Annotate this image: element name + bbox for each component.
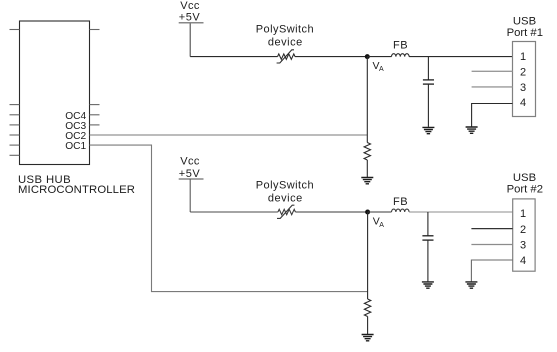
resistor R1 (VA1 to ground) xyxy=(364,143,370,160)
power Vcc +5V (bottom) xyxy=(179,156,204,181)
wire J1 pin 4 to ground xyxy=(472,104,513,127)
svg-text:4: 4 xyxy=(520,255,526,267)
svg-text:FB: FB xyxy=(393,196,408,208)
capacitor C2 top lead xyxy=(427,212,429,235)
wire node VA2 down to resistor R2 xyxy=(367,212,369,299)
svg-text:A: A xyxy=(379,66,384,73)
ground (below C2) xyxy=(422,282,434,288)
svg-text:USB: USB xyxy=(513,172,536,184)
svg-text:3: 3 xyxy=(520,82,526,94)
capacitor C1 bottom lead xyxy=(427,84,429,127)
svg-text:USB: USB xyxy=(513,16,536,28)
svg-text:Vcc: Vcc xyxy=(180,0,200,12)
wire node VA2 to ferrite bead xyxy=(368,211,392,213)
capacitor C2 xyxy=(422,236,433,240)
svg-text:1: 1 xyxy=(520,51,526,63)
wire OC1 sense net: right, down, right to node VA2 xyxy=(90,145,368,292)
svg-text:2: 2 xyxy=(520,224,526,236)
wire polyswitch to node VA2 xyxy=(295,211,367,213)
ground (J1 pin 4) xyxy=(466,127,478,133)
svg-text:3: 3 xyxy=(520,240,526,252)
svg-text:A: A xyxy=(379,222,384,229)
wire J2 pin 4 to ground xyxy=(471,260,512,281)
svg-text:MICROCONTROLLER: MICROCONTROLLER xyxy=(18,184,135,196)
wire Vcc1 drop xyxy=(189,23,191,56)
ground (J2 pin 4) xyxy=(465,282,477,288)
svg-text:2: 2 xyxy=(520,66,526,78)
wire OC2 sense net to node VA1 xyxy=(90,134,368,136)
wire J2 pin 3 stub (D+) xyxy=(471,244,512,246)
capacitor C1 xyxy=(423,80,434,84)
wire J1 pin 2 stub (D-) xyxy=(472,70,513,72)
capacitor C1 top lead xyxy=(427,57,429,80)
USB hub microcontroller U1 box xyxy=(20,21,90,165)
svg-text:PolySwitch: PolySwitch xyxy=(256,179,314,191)
U1 left pin stubs xyxy=(10,30,20,156)
polyswitch F1 (resettable fuse) xyxy=(277,50,295,63)
svg-text:PolySwitch: PolySwitch xyxy=(256,23,314,35)
ground (below C1) xyxy=(422,127,434,133)
svg-text:Vcc: Vcc xyxy=(180,156,200,168)
ground (below R2) xyxy=(362,335,374,341)
svg-text:OC1: OC1 xyxy=(65,141,86,152)
ground (below R1) xyxy=(361,178,373,184)
svg-text:device: device xyxy=(268,193,303,205)
wire polyswitch to node VA1 xyxy=(295,56,367,58)
wire Vcc2 drop xyxy=(189,179,191,212)
ferrite bead FB1 xyxy=(392,54,410,57)
svg-text:4: 4 xyxy=(520,97,526,109)
svg-text:+5V: +5V xyxy=(179,12,201,24)
node VA2 junction dot xyxy=(365,210,370,215)
wire J2 pin 2 stub (D-) xyxy=(471,228,512,230)
wire node VA1 down to resistor R1 xyxy=(366,57,368,143)
wire R1 to ground xyxy=(366,160,368,177)
wire R2 to ground xyxy=(367,317,369,335)
svg-text:Port #1: Port #1 xyxy=(507,27,543,39)
wire ferrite bead to USB port 1 pin 1 xyxy=(409,56,512,58)
svg-text:1: 1 xyxy=(520,208,526,220)
polyswitch F2 (resettable fuse) xyxy=(277,205,295,218)
node VA1 junction dot xyxy=(365,54,370,59)
wire node VA1 to ferrite bead xyxy=(367,56,391,58)
resistor R2 (VA2 to ground) xyxy=(364,299,370,316)
U1 right pin stubs xyxy=(90,30,100,125)
wire ferrite bead to USB port 2 pin 1 xyxy=(409,211,513,213)
wire Vcc2 to polyswitch xyxy=(190,211,278,213)
svg-text:Port #2: Port #2 xyxy=(507,183,543,195)
wire J1 pin 3 stub (D+) xyxy=(472,86,513,88)
power Vcc +5V (top) xyxy=(179,0,204,24)
svg-text:FB: FB xyxy=(393,40,408,52)
capacitor C2 bottom lead xyxy=(427,240,429,281)
ferrite bead FB2 xyxy=(392,209,410,212)
USB Port #1 connector J1 xyxy=(507,16,543,117)
USB Port #2 connector J2 xyxy=(507,172,543,271)
svg-text:device: device xyxy=(268,37,303,49)
wire Vcc1 to polyswitch xyxy=(190,56,277,58)
